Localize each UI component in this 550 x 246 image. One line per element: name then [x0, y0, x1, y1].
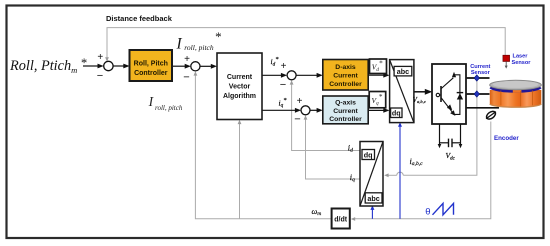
svg-text:Current: Current [227, 74, 253, 81]
svg-text:−: − [294, 114, 300, 126]
svg-text:Laser: Laser [513, 54, 529, 60]
svg-text:d/dt: d/dt [334, 216, 347, 223]
svg-text:roll, pitch: roll, pitch [184, 43, 214, 52]
svg-text:D-axis: D-axis [335, 64, 356, 71]
svg-text:*: * [215, 29, 222, 44]
svg-text:Sensor: Sensor [471, 70, 491, 76]
svg-text:Encoder: Encoder [494, 135, 519, 142]
svg-text:Current: Current [333, 73, 358, 80]
svg-text:Sensor: Sensor [512, 60, 532, 66]
svg-text:Current: Current [333, 108, 358, 115]
svg-text:Controller: Controller [329, 116, 362, 123]
svg-text:+: + [184, 54, 190, 65]
svg-text:−: − [97, 70, 103, 82]
svg-text:Algorithm: Algorithm [223, 93, 256, 100]
svg-text:+: + [281, 61, 287, 72]
svg-text:abc: abc [367, 194, 379, 203]
svg-text:I: I [176, 36, 183, 53]
svg-text:dq: dq [364, 151, 373, 160]
svg-text:Distance feedback: Distance feedback [106, 14, 173, 23]
svg-text:−: − [280, 79, 286, 91]
svg-text:abc: abc [397, 67, 409, 76]
svg-text:Controller: Controller [329, 81, 362, 88]
svg-text:+: + [297, 96, 303, 107]
svg-text:Roll, Pitch: Roll, Pitch [134, 61, 168, 68]
svg-text:dq: dq [392, 109, 401, 118]
svg-text:roll, pitch: roll, pitch [155, 104, 183, 112]
svg-text:+: + [97, 52, 103, 63]
svg-text:−: − [183, 72, 189, 84]
svg-text:Vector: Vector [229, 84, 251, 91]
svg-text:Va,b,c: Va,b,c [413, 97, 426, 105]
svg-text:θ: θ [425, 207, 430, 218]
svg-text:Q-axis: Q-axis [335, 100, 356, 107]
svg-text:Controller: Controller [134, 70, 168, 77]
